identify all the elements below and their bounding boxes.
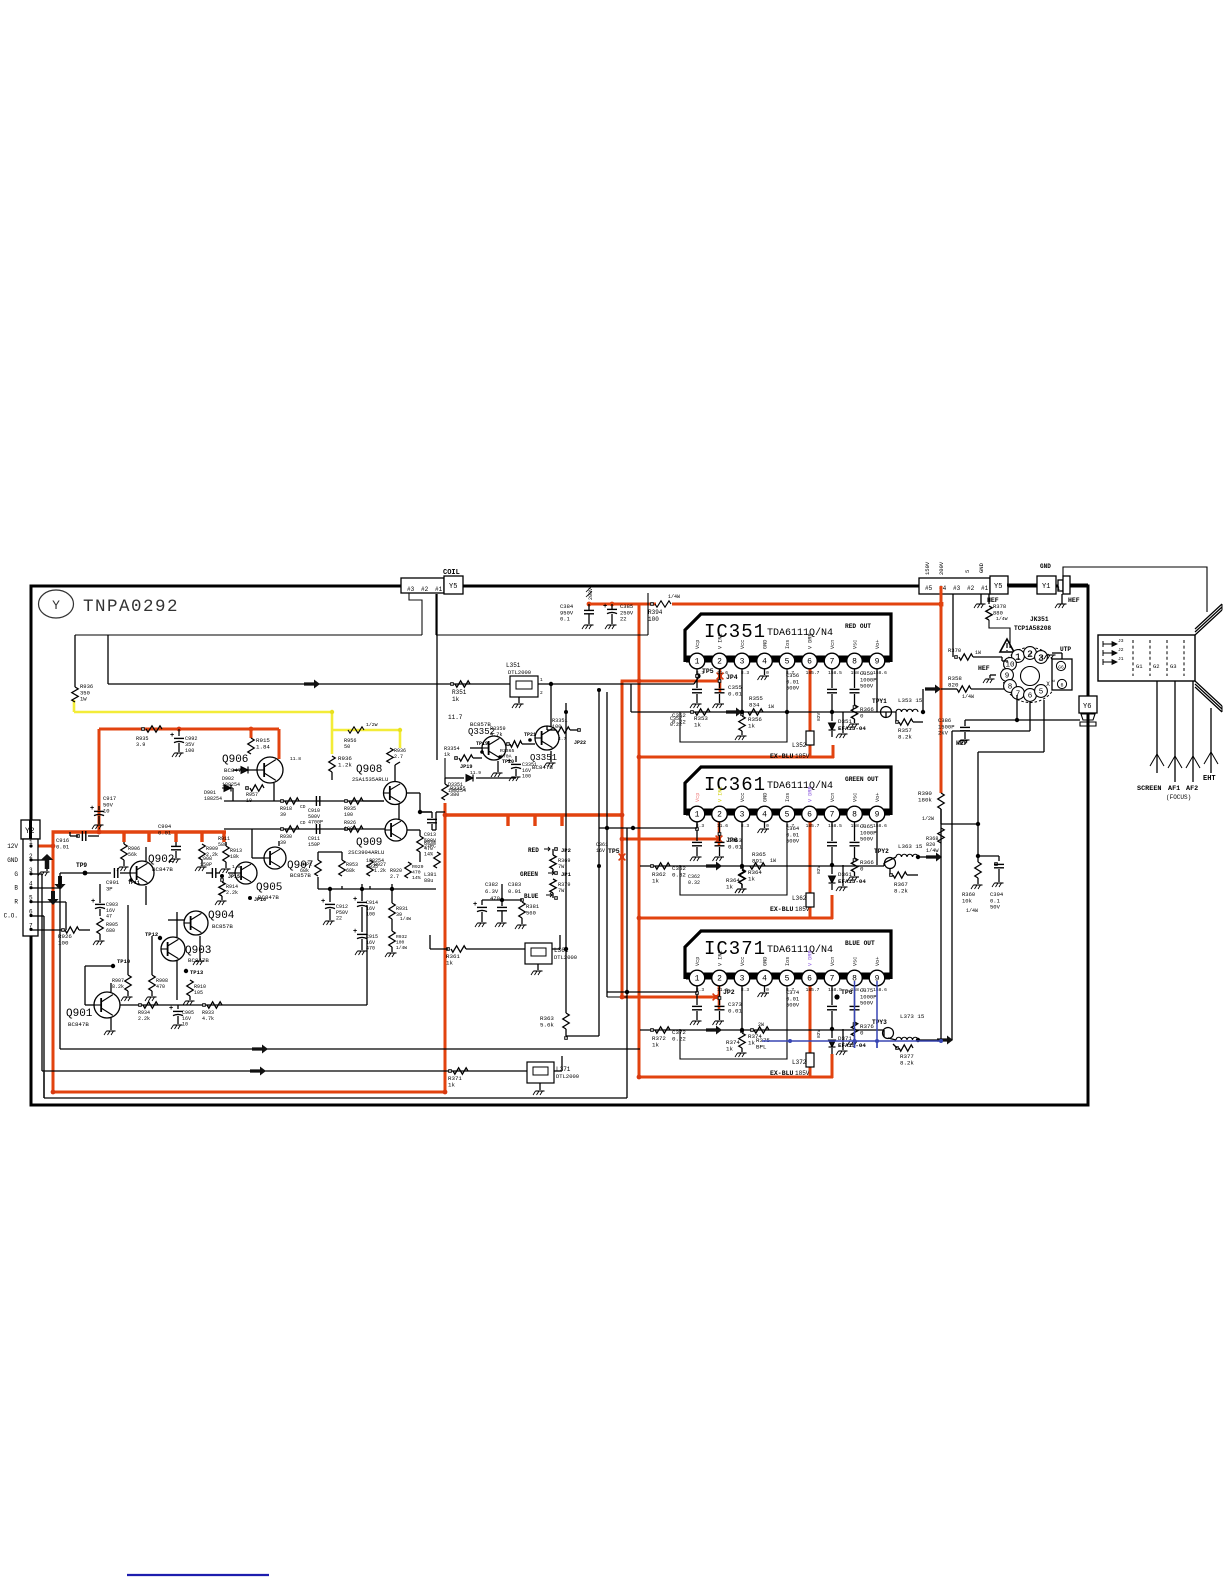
svg-text:TP5: TP5 bbox=[608, 848, 620, 855]
red wire horizontal to JP4 bbox=[621, 680, 721, 683]
svg-text:470: 470 bbox=[156, 984, 165, 990]
resistor R915 1.84 bbox=[248, 738, 254, 754]
resistor R938 470 bbox=[417, 836, 423, 852]
svg-text:RED: RED bbox=[528, 847, 539, 854]
svg-text:+: + bbox=[170, 732, 174, 740]
resistor R932 100 bbox=[389, 931, 395, 947]
red wire to D351 bbox=[832, 745, 835, 758]
svg-text:UTP: UTP bbox=[1060, 646, 1071, 653]
wire IC361 out up to R390 bbox=[940, 809, 942, 857]
svg-text:L362: L362 bbox=[792, 895, 807, 902]
wire vertical Y2 pin3 drop bbox=[41, 874, 43, 1071]
wire Y2 pin5 bbox=[31, 901, 66, 903]
svg-text:Vcn: Vcn bbox=[830, 793, 836, 802]
red rail stub x124 bbox=[122, 832, 125, 842]
svg-text:TDA6111Q/N4: TDA6111Q/N4 bbox=[767, 944, 833, 956]
resistor R381 560 bbox=[519, 902, 525, 918]
IC351 pin 7 bbox=[824, 653, 840, 669]
resistor R918 39 bbox=[281, 800, 284, 803]
svg-text:2: 2 bbox=[717, 658, 722, 667]
svg-text:GND: GND bbox=[763, 957, 769, 966]
svg-text:100: 100 bbox=[396, 939, 405, 945]
svg-text:150P: 150P bbox=[308, 842, 320, 848]
svg-text:Vcp: Vcp bbox=[695, 957, 701, 966]
red wire Q906 collector bbox=[278, 729, 281, 759]
svg-text:+: + bbox=[473, 901, 477, 909]
svg-text:EFA15-04: EFA15-04 bbox=[838, 1042, 866, 1049]
svg-text:TDA6111Q/N4: TDA6111Q/N4 bbox=[767, 780, 833, 792]
svg-text:105: 105 bbox=[194, 990, 203, 996]
yellow wire vertical x400 bbox=[399, 730, 402, 748]
svg-text:8.2k: 8.2k bbox=[894, 888, 908, 895]
red wire branch to JP6 IC361 bbox=[622, 838, 720, 841]
resistor R935 3.9 in red line bbox=[146, 726, 162, 732]
red wire to D361 bbox=[831, 895, 834, 919]
resistor R361 1k bbox=[447, 948, 450, 951]
test point TP5 IC351 bbox=[695, 673, 700, 678]
wire vertical x566 bbox=[565, 703, 567, 1013]
red wire IC361 pin2 bbox=[718, 816, 721, 846]
wire IC361 pin5 loop bbox=[680, 822, 787, 895]
diode D901 bbox=[224, 785, 231, 792]
jumper JP15 bbox=[220, 874, 224, 878]
wire TPY2 junction bbox=[916, 855, 920, 859]
svg-text:Vcp: Vcp bbox=[695, 793, 701, 802]
red wire 9V horizontal bbox=[99, 728, 279, 731]
wire Y2 pin2 bbox=[31, 859, 47, 861]
wire horizontal y635 bbox=[75, 634, 422, 636]
svg-text:1W: 1W bbox=[770, 858, 776, 864]
capacitor C917 electrolytic bbox=[98, 806, 100, 810]
svg-text:0.01: 0.01 bbox=[728, 691, 742, 698]
svg-text:1k: 1k bbox=[748, 1040, 755, 1047]
wire vertical from title area bbox=[74, 635, 76, 687]
inductor L353 15 bbox=[896, 709, 918, 712]
svg-text:200V: 200V bbox=[938, 561, 945, 575]
capacitor C352 under IC351 pin1 bbox=[696, 669, 698, 688]
resistor R366 under IC351 pin8 bbox=[851, 705, 857, 719]
svg-text:IC351: IC351 bbox=[704, 621, 766, 643]
capacitor C386 1500P bbox=[1015, 718, 1019, 722]
svg-text:TP9: TP9 bbox=[76, 862, 87, 869]
diode D361 under IC361 pin7 bbox=[831, 865, 833, 874]
yellow wire vertical x332 bbox=[331, 712, 334, 754]
jumper JP1 block bbox=[555, 872, 558, 875]
svg-text:1k: 1k bbox=[452, 696, 460, 703]
svg-text:HEF: HEF bbox=[956, 740, 968, 747]
resistor R364 1k vertical bbox=[739, 870, 745, 884]
svg-text:G: G bbox=[14, 871, 18, 878]
CRT socket pin 5 bbox=[1035, 685, 1048, 698]
svg-text:88u: 88u bbox=[424, 878, 433, 884]
resistor R905 680 bbox=[97, 918, 103, 934]
svg-text:22: 22 bbox=[336, 916, 342, 922]
svg-text:RED OUT: RED OUT bbox=[845, 623, 871, 630]
capacitor C365 under IC361 pin8 bbox=[854, 822, 856, 841]
IC351 pin 5 bbox=[779, 653, 795, 669]
wire Q906 emitter bbox=[273, 783, 275, 801]
fat arrow up bbox=[41, 854, 54, 869]
svg-text:185.7: 185.7 bbox=[806, 823, 820, 829]
svg-text:1k: 1k bbox=[726, 1046, 733, 1053]
svg-text:3: 3 bbox=[740, 658, 745, 667]
yellow wire corner vertical bbox=[73, 700, 76, 712]
capacitor C355 under IC351 pin2 bbox=[719, 669, 721, 688]
red wire IC371 pin2 bbox=[718, 981, 721, 1009]
transistor Q3351 bbox=[535, 726, 559, 750]
footer blue rule bbox=[127, 1574, 269, 1576]
warning triangle bbox=[1000, 639, 1014, 652]
svg-text:100: 100 bbox=[344, 826, 353, 832]
wire base bus y829 bbox=[224, 828, 385, 830]
capacitor C905 electrolytic bbox=[177, 1005, 179, 1009]
svg-text:50V: 50V bbox=[990, 904, 1001, 911]
svg-text:1/4W: 1/4W bbox=[996, 616, 1008, 622]
svg-text:9: 9 bbox=[875, 658, 880, 667]
svg-text:Vsc: Vsc bbox=[853, 793, 859, 802]
red wire IC351 pin6 drive bbox=[809, 663, 812, 757]
svg-text:8: 8 bbox=[852, 658, 857, 667]
svg-text:B: B bbox=[14, 885, 18, 892]
wire IC371 pin5 loop bbox=[680, 986, 787, 1059]
svg-text:2: 2 bbox=[717, 975, 722, 984]
IC371 pin 7 bbox=[824, 970, 840, 986]
resistor R353 1k bbox=[691, 711, 694, 714]
svg-text:BC847B: BC847B bbox=[68, 1021, 89, 1028]
connector top-right pin header bbox=[919, 578, 990, 594]
svg-text:J2: J2 bbox=[1118, 647, 1124, 653]
wire IC371 out up bbox=[951, 731, 953, 1040]
svg-text:CD: CD bbox=[300, 820, 306, 826]
red wire IC351 pin2 bbox=[719, 663, 722, 692]
svg-text:2: 2 bbox=[717, 811, 722, 820]
svg-text:Vsc: Vsc bbox=[853, 957, 859, 966]
red rail stub x176 bbox=[174, 832, 177, 842]
resistor R363 5.6k bbox=[563, 1013, 569, 1029]
wire IC351 pin5 loop bbox=[680, 669, 787, 742]
red rail stub x149 bbox=[147, 832, 150, 842]
wire Q902 base bbox=[120, 872, 131, 874]
svg-text:68k: 68k bbox=[346, 868, 355, 874]
svg-text:4: 4 bbox=[762, 658, 767, 667]
svg-text:L353 15: L353 15 bbox=[898, 697, 923, 704]
inductor L373 15 bbox=[896, 1037, 918, 1040]
svg-text:14%: 14% bbox=[424, 852, 433, 858]
wire IC351 pin3 down bbox=[741, 669, 743, 712]
wire cluster mesh bbox=[318, 888, 436, 890]
wire socket pin6 down bbox=[1029, 702, 1031, 731]
test point TPY1 bbox=[881, 707, 892, 718]
logo circle Y bbox=[39, 590, 74, 618]
diode D371 under IC371 pin7 bbox=[831, 1029, 833, 1038]
svg-text:Vcp: Vcp bbox=[695, 640, 701, 649]
svg-text:Ios: Ios bbox=[785, 793, 791, 802]
svg-text:1.2k: 1.2k bbox=[338, 762, 352, 769]
svg-text:12V: 12V bbox=[7, 843, 18, 850]
connector Y6 box bbox=[1079, 696, 1097, 713]
svg-text:6: 6 bbox=[1028, 693, 1033, 701]
svg-text:470: 470 bbox=[366, 946, 375, 952]
svg-text:G1: G1 bbox=[1136, 663, 1143, 670]
transistor Q903 bbox=[161, 937, 185, 961]
svg-text:HEF: HEF bbox=[1068, 597, 1080, 604]
svg-text:2W: 2W bbox=[758, 1022, 764, 1028]
IC351 pin 6 bbox=[802, 653, 818, 669]
IC351 pin 3 bbox=[734, 653, 750, 669]
svg-text:9: 9 bbox=[875, 811, 880, 820]
svg-text:1: 1 bbox=[540, 677, 543, 683]
CRT socket pin 6 bbox=[1024, 689, 1037, 702]
resistor R379 7W bbox=[550, 879, 556, 893]
wire C384 box bbox=[436, 593, 648, 635]
wire base bus y801 bbox=[224, 800, 384, 802]
IC351 pin 9 bbox=[869, 653, 885, 669]
IC361 pin 7 bbox=[824, 806, 840, 822]
svg-text:L373 15: L373 15 bbox=[900, 1013, 925, 1020]
wire Y2 pin3 bbox=[31, 873, 42, 875]
svg-text:BC847B: BC847B bbox=[152, 866, 173, 873]
capacitor C904 0.01 bbox=[171, 845, 181, 847]
svg-text:#1: #1 bbox=[435, 586, 443, 593]
svg-text:680: 680 bbox=[106, 928, 115, 934]
resistor R956 50 on yellow loop bbox=[348, 727, 364, 733]
svg-text:D361: D361 bbox=[838, 871, 852, 878]
blue wire IC371 pin9 down bbox=[876, 981, 878, 1048]
op-amp IC361 outline bbox=[685, 767, 891, 815]
wire TPY3 junction bbox=[916, 1038, 920, 1042]
svg-text:56k: 56k bbox=[128, 852, 137, 858]
signal arrow feed IC371 bbox=[706, 1026, 722, 1035]
ground HEF under Y1 plug bbox=[1061, 594, 1063, 604]
svg-text:#2: #2 bbox=[421, 586, 429, 593]
wire IC361 output down link bbox=[940, 857, 942, 1041]
resistor R953 68k bbox=[339, 860, 345, 876]
op-amp IC351 outline bbox=[685, 614, 891, 662]
svg-text:158.6: 158.6 bbox=[873, 987, 887, 993]
svg-text:185V: 185V bbox=[795, 753, 810, 760]
diode D3351 bbox=[466, 775, 473, 782]
resistor R914 2.2k bbox=[221, 879, 224, 882]
delay line L351 bbox=[510, 676, 538, 697]
wire Q905 base bbox=[228, 872, 235, 874]
svg-text:18k: 18k bbox=[230, 854, 239, 860]
svg-text:Q904: Q904 bbox=[208, 910, 235, 922]
connector Y2 pin strip bbox=[23, 839, 38, 936]
red test point TP5 mid bbox=[619, 854, 626, 861]
CRT funnel top bbox=[1195, 604, 1222, 635]
svg-text:2SA1535ARLU: 2SA1535ARLU bbox=[352, 776, 388, 783]
red rail stub x562 bbox=[560, 815, 563, 826]
wire to R358 bbox=[941, 688, 957, 690]
capacitor C362 under IC361 pin1 bbox=[696, 822, 698, 841]
svg-text:V DRR: V DRR bbox=[808, 950, 814, 966]
svg-text:0.01: 0.01 bbox=[728, 844, 742, 851]
svg-text:4700P: 4700P bbox=[308, 820, 323, 826]
capacitor C3351 bbox=[515, 756, 517, 762]
resistor R377 8.2k bbox=[896, 1047, 899, 1050]
svg-text:AF2: AF2 bbox=[1186, 785, 1198, 793]
svg-text:G3: G3 bbox=[1170, 663, 1177, 670]
svg-text:500V: 500V bbox=[860, 683, 874, 690]
capacitor C908 150P bbox=[211, 868, 213, 878]
svg-text:R932: R932 bbox=[396, 934, 407, 940]
wire Q906 base bbox=[233, 769, 257, 771]
test point TPY3 bbox=[883, 1028, 894, 1039]
transistor Q906 bbox=[257, 757, 283, 783]
red wire EX-BLU IC361 bbox=[639, 917, 833, 920]
svg-text:39: 39 bbox=[280, 812, 286, 818]
transistor Q905 bbox=[235, 862, 257, 884]
red wire IC361 pin6 drive bbox=[809, 816, 812, 918]
svg-text:8: 8 bbox=[852, 811, 857, 820]
wire IC361 pin3 down bbox=[741, 822, 743, 865]
svg-text:6: 6 bbox=[807, 975, 812, 984]
transistor Q909 bbox=[385, 819, 407, 841]
resistor R906 56k bbox=[121, 844, 127, 860]
red vertical x99 bbox=[98, 729, 101, 834]
svg-text:6: 6 bbox=[807, 811, 812, 820]
svg-text:150V: 150V bbox=[924, 561, 931, 575]
svg-text:7: 7 bbox=[830, 658, 835, 667]
resistor R364 under IC361 pin3 bbox=[739, 869, 745, 884]
capacitor C364 under IC361 pin7 bbox=[831, 822, 833, 841]
resistor R362 1k bbox=[651, 865, 654, 868]
svg-text:TNPA0292: TNPA0292 bbox=[83, 597, 179, 617]
CRT socket inner circle bbox=[1021, 667, 1040, 686]
wire R358 to CRT pin8 bbox=[971, 688, 1004, 690]
wire Q901 emitter ground bbox=[110, 1018, 112, 1030]
svg-text:1.8: 1.8 bbox=[232, 864, 241, 870]
svg-text:1k: 1k bbox=[444, 752, 450, 758]
blue wire IC371 pin8 down bbox=[854, 981, 856, 1048]
resistor R936 350 bbox=[72, 687, 78, 702]
resistor R394 in red bus bbox=[651, 603, 654, 606]
svg-text:+: + bbox=[353, 928, 357, 936]
svg-text:1.84: 1.84 bbox=[256, 744, 270, 751]
resistor R3355 380 bbox=[442, 784, 448, 800]
svg-text:22: 22 bbox=[620, 616, 627, 623]
svg-text:CD: CD bbox=[300, 804, 306, 810]
svg-text:2.7: 2.7 bbox=[394, 754, 403, 760]
CRT funnel bottom bbox=[1195, 681, 1222, 712]
svg-text:100: 100 bbox=[522, 774, 531, 780]
svg-text:1/4W: 1/4W bbox=[396, 945, 407, 951]
CRT socket aux box bbox=[1052, 659, 1072, 690]
svg-text:100: 100 bbox=[58, 940, 69, 947]
connector Y2 box bbox=[21, 820, 40, 839]
jumper JP2 bbox=[713, 994, 720, 1001]
svg-text:7W: 7W bbox=[558, 864, 565, 870]
capacitor C384 bbox=[588, 604, 590, 610]
transistor Q3352 bbox=[482, 736, 506, 760]
wire cluster to rail bbox=[436, 811, 445, 813]
resistor R935 100 bbox=[345, 800, 348, 803]
svg-text:0.01: 0.01 bbox=[508, 888, 522, 895]
svg-text:L351: L351 bbox=[506, 662, 521, 669]
svg-text:EX-BLU: EX-BLU bbox=[770, 1070, 794, 1077]
svg-text:1: 1 bbox=[1015, 653, 1021, 664]
resistor R931 39 bbox=[389, 903, 395, 919]
op-amp IC371 outline bbox=[685, 931, 891, 979]
inductor L362 body bbox=[806, 893, 814, 907]
wire L371 out bbox=[554, 1070, 562, 1072]
svg-text:EX-BLU: EX-BLU bbox=[770, 906, 794, 913]
wire Q904 base bbox=[168, 919, 184, 921]
svg-text:8.2k: 8.2k bbox=[898, 734, 912, 741]
svg-text:1/4W: 1/4W bbox=[966, 908, 978, 914]
svg-text:11.6: 11.6 bbox=[717, 823, 728, 829]
svg-text:1/4W: 1/4W bbox=[400, 916, 411, 922]
signal arrow on y684 bbox=[304, 680, 320, 689]
red supply rail y815 bbox=[445, 813, 624, 816]
svg-text:0: 0 bbox=[766, 987, 769, 993]
svg-text:+: + bbox=[507, 758, 511, 766]
wire vertical Y2 pin4 drop bbox=[59, 888, 61, 1049]
svg-text:TPY3: TPY3 bbox=[872, 1019, 887, 1026]
svg-text:5: 5 bbox=[785, 811, 790, 820]
svg-text:200V: 200V bbox=[588, 588, 594, 600]
svg-text:82V: 82V bbox=[816, 1029, 822, 1038]
svg-text:IC361: IC361 bbox=[704, 774, 766, 796]
svg-text:#3: #3 bbox=[407, 586, 415, 593]
svg-text:Q909: Q909 bbox=[356, 837, 382, 849]
svg-text:C382: C382 bbox=[485, 881, 498, 888]
wire vertical x607 bbox=[606, 692, 608, 997]
svg-text:4: 4 bbox=[762, 975, 767, 984]
svg-text:Y1: Y1 bbox=[1042, 583, 1050, 591]
capacitor C374 under IC371 pin7 bbox=[831, 986, 833, 1005]
svg-text:4.7k: 4.7k bbox=[202, 1016, 214, 1022]
svg-text:GREEN: GREEN bbox=[520, 871, 538, 878]
svg-text:1/2W: 1/2W bbox=[922, 816, 934, 822]
svg-text:7W: 7W bbox=[558, 888, 565, 894]
svg-text:BPL: BPL bbox=[756, 1044, 767, 1051]
resistor R355 834 bbox=[748, 709, 763, 715]
IC371 pin 6 bbox=[802, 970, 818, 986]
diode D902 bbox=[241, 767, 248, 774]
resistor R930 39 bbox=[281, 828, 284, 831]
wire vertical x631 upper bbox=[630, 684, 632, 712]
IC371 pin 5 bbox=[779, 970, 795, 986]
svg-text:Q906: Q906 bbox=[222, 754, 248, 766]
CRT board connector box bbox=[1098, 635, 1195, 681]
CRT socket JK351 outer ring bbox=[1003, 648, 1058, 703]
wire y731 left bbox=[952, 730, 1030, 732]
svg-text:V INL: V INL bbox=[718, 950, 724, 966]
svg-text:158.5: 158.5 bbox=[828, 823, 842, 829]
svg-text:BC847B: BC847B bbox=[188, 957, 209, 964]
wire y824 from R390 bbox=[941, 823, 978, 825]
Y2 border pass-through bbox=[29, 820, 32, 839]
transistor Q907 bbox=[264, 847, 286, 869]
svg-text:Vcc: Vcc bbox=[740, 957, 746, 966]
svg-text:GND: GND bbox=[763, 793, 769, 802]
wire Q908-Q909 join bbox=[407, 792, 420, 794]
wire IC371 pin1 row bbox=[607, 991, 697, 993]
fat arrow down 1 bbox=[54, 876, 65, 890]
svg-text:158.5: 158.5 bbox=[828, 670, 842, 676]
svg-text:1.2k: 1.2k bbox=[374, 868, 386, 874]
svg-text:11.7: 11.7 bbox=[448, 714, 463, 721]
jumper JP4 bbox=[717, 673, 724, 680]
resistor R357 8.2k bbox=[895, 712, 897, 722]
svg-text:0.32: 0.32 bbox=[672, 872, 686, 879]
svg-text:JP2: JP2 bbox=[561, 847, 571, 854]
red wire vertical x622 bbox=[621, 681, 624, 999]
svg-text:1k: 1k bbox=[448, 1082, 455, 1089]
IC371 pin 8 bbox=[847, 970, 863, 986]
red wire 200V horizontal bus bbox=[589, 603, 656, 606]
